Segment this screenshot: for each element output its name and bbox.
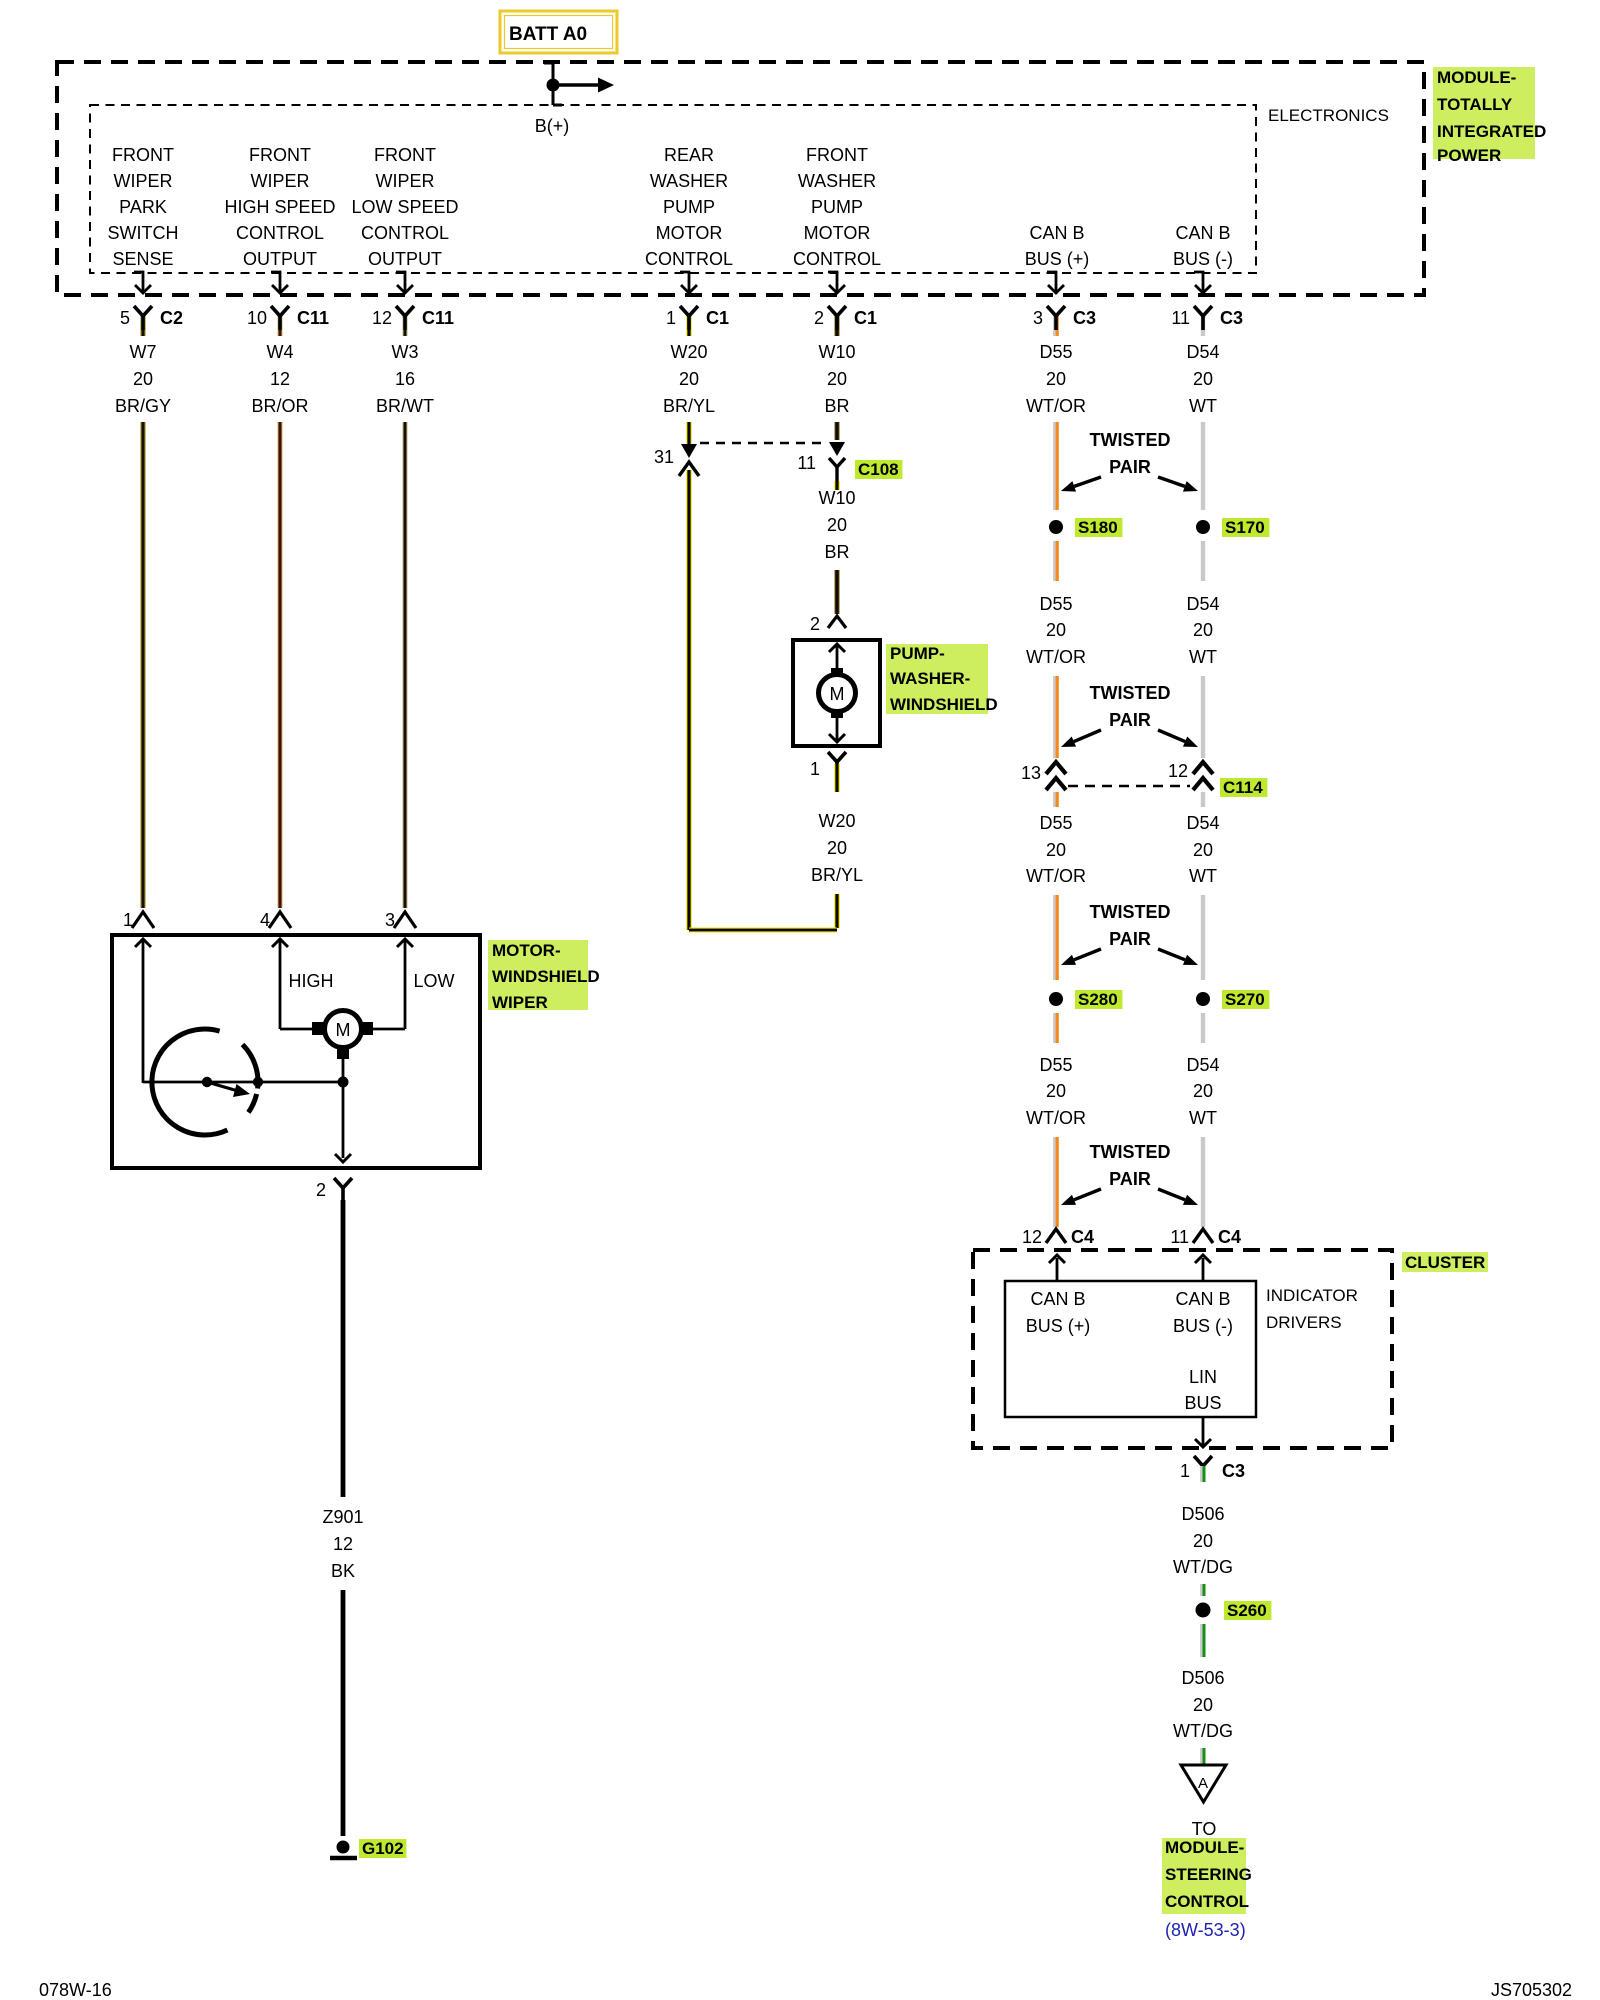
motor pin 4 chevron: [269, 912, 291, 928]
svg-text:BUS (+): BUS (+): [1026, 1316, 1091, 1336]
svg-text:W20: W20: [818, 811, 855, 831]
cluster dashed box: [973, 1250, 1392, 1448]
park switch contact dot: [202, 1077, 212, 1087]
connector C114 pin 12 (double chevron): [1193, 762, 1213, 774]
svg-text:DRIVERS: DRIVERS: [1266, 1313, 1342, 1332]
svg-text:11: 11: [1171, 308, 1190, 328]
svg-text:S180: S180: [1078, 518, 1118, 537]
svg-text:CLUSTER: CLUSTER: [1405, 1253, 1485, 1272]
pump pin 1 connector Y: [828, 752, 846, 762]
stub below C114 pin 13: [1053, 792, 1056, 807]
label CLUSTER: [1402, 1252, 1488, 1272]
svg-text:WIPER: WIPER: [492, 993, 548, 1012]
splice S260: [1196, 1603, 1211, 1618]
svg-text:WT/OR: WT/OR: [1026, 1108, 1086, 1128]
svg-text:BR: BR: [824, 542, 849, 562]
wire W10 BR upper segment: [835, 422, 840, 440]
cluster inner box indicator drivers: [1005, 1281, 1256, 1417]
svg-text:BUS: BUS: [1184, 1393, 1221, 1413]
park switch wiper arrow: [207, 1082, 238, 1091]
wire motor to junction: [342, 1059, 345, 1158]
svg-text:20: 20: [1046, 1081, 1066, 1101]
splice S170: [1196, 520, 1210, 534]
svg-text:CAN B: CAN B: [1029, 223, 1084, 243]
svg-text:LOW: LOW: [413, 971, 454, 991]
svg-text:TWISTED: TWISTED: [1090, 902, 1171, 922]
svg-text:BATT A0: BATT A0: [509, 24, 587, 45]
svg-text:PAIR: PAIR: [1109, 929, 1151, 949]
motor pin 1 chevron: [132, 912, 154, 928]
svg-text:STEERING: STEERING: [1165, 1865, 1252, 1884]
pin exit arrow front wiper high speed: [271, 272, 280, 293]
svg-text:FRONT: FRONT: [374, 145, 436, 165]
svg-text:TWISTED: TWISTED: [1090, 1142, 1171, 1162]
power feed label BATT A0: [500, 11, 617, 53]
svg-text:D55: D55: [1039, 594, 1072, 614]
wire D54 WT segment 5: [1201, 1013, 1205, 1043]
svg-text:G102: G102: [362, 1839, 404, 1858]
pin exit arrow CAN B bus +: [1047, 272, 1056, 293]
svg-text:TWISTED: TWISTED: [1090, 683, 1171, 703]
svg-text:Z901: Z901: [322, 1507, 363, 1527]
svg-text:D54: D54: [1186, 342, 1219, 362]
connector C1 pin 2: [835, 316, 840, 336]
wire D55 WT/OR segment 5: [1053, 1013, 1056, 1043]
motor-windshield wiper box: [112, 935, 480, 1168]
svg-text:C11: C11: [297, 308, 329, 328]
svg-text:20: 20: [1046, 620, 1066, 640]
svg-text:CONTROL: CONTROL: [1165, 1892, 1249, 1911]
svg-text:C1: C1: [854, 308, 877, 328]
svg-text:WT/OR: WT/OR: [1026, 647, 1086, 667]
svg-text:20: 20: [1193, 1081, 1213, 1101]
svg-text:2: 2: [814, 308, 824, 328]
svg-text:W3: W3: [392, 342, 419, 362]
svg-text:2: 2: [316, 1180, 326, 1200]
wire D55 WT/OR segment 6: [1053, 1137, 1056, 1227]
motor pin 3 chevron: [394, 912, 416, 928]
svg-text:WIPER: WIPER: [250, 171, 309, 191]
svg-text:TO: TO: [1192, 1819, 1217, 1839]
svg-text:WINDSHIELD: WINDSHIELD: [890, 695, 998, 714]
svg-text:20: 20: [827, 369, 847, 389]
motor M windshield wiper: [312, 1022, 323, 1035]
svg-text:C2: C2: [160, 308, 183, 328]
svg-text:D55: D55: [1039, 1055, 1072, 1075]
svg-text:1: 1: [666, 308, 676, 328]
svg-text:OUTPUT: OUTPUT: [243, 249, 317, 269]
svg-text:PUMP-: PUMP-: [890, 644, 945, 663]
connector C4 pin 11 chevron: [1193, 1229, 1213, 1243]
svg-text:C4: C4: [1218, 1227, 1241, 1247]
arrow cluster CAN B bus - (up): [1202, 1258, 1205, 1281]
arrow into wiper motor pin 3 (LOW): [404, 941, 407, 1029]
svg-text:12: 12: [333, 1534, 353, 1554]
wire D55 WT/OR segment 3: [1053, 676, 1056, 758]
svg-text:D54: D54: [1186, 1055, 1219, 1075]
pin exit arrow front wiper low speed: [396, 272, 405, 293]
wire W20 BR/YL long segment down: [686, 470, 691, 930]
wire D55 WT/OR segment 4: [1053, 895, 1056, 980]
svg-text:C108: C108: [858, 460, 899, 479]
svg-text:CAN B: CAN B: [1175, 1289, 1230, 1309]
svg-text:MODULE-: MODULE-: [1165, 1838, 1244, 1857]
svg-text:12: 12: [372, 308, 392, 328]
svg-text:WT/OR: WT/OR: [1026, 396, 1086, 416]
svg-text:PAIR: PAIR: [1109, 710, 1151, 730]
wire W10 BR to pump: [835, 570, 840, 614]
svg-text:C3: C3: [1222, 1461, 1245, 1481]
svg-text:LIN: LIN: [1189, 1367, 1217, 1387]
svg-text:20: 20: [1046, 840, 1066, 860]
svg-text:WASHER: WASHER: [798, 171, 876, 191]
svg-text:W10: W10: [818, 342, 855, 362]
pump-washer-windshield box: [793, 640, 880, 746]
wire D54 WT segment 4: [1201, 895, 1205, 980]
svg-text:BR/WT: BR/WT: [376, 396, 434, 416]
svg-text:PUMP: PUMP: [663, 197, 715, 217]
svg-text:BUS (-): BUS (-): [1173, 249, 1233, 269]
svg-text:20: 20: [1193, 620, 1213, 640]
svg-text:JS705302: JS705302: [1491, 1980, 1572, 2000]
svg-text:D54: D54: [1186, 813, 1219, 833]
svg-text:20: 20: [827, 515, 847, 535]
svg-text:078W-16: 078W-16: [39, 1980, 112, 2000]
svg-text:1: 1: [810, 759, 820, 779]
svg-text:(8W-53-3): (8W-53-3): [1165, 1920, 1246, 1940]
svg-text:12: 12: [270, 369, 290, 389]
svg-text:S260: S260: [1227, 1601, 1267, 1620]
wire D55 WT/OR segment 1: [1053, 422, 1056, 510]
motor M pump: [831, 668, 843, 679]
svg-text:W7: W7: [130, 342, 157, 362]
splice S270: [1196, 992, 1210, 1006]
svg-text:11: 11: [797, 453, 816, 473]
connector C3 pin 1: [1194, 1456, 1212, 1466]
pin exit arrow CAN B bus -: [1194, 272, 1203, 293]
motor pin 2 connector Y: [334, 1178, 352, 1188]
connector C11 pin 10: [277, 316, 282, 336]
svg-text:16: 16: [395, 369, 415, 389]
svg-text:M: M: [336, 1020, 351, 1040]
svg-text:5: 5: [120, 308, 130, 328]
svg-text:13: 13: [1021, 763, 1041, 783]
park switch cam circle: [152, 1029, 228, 1135]
svg-text:TOTALLY: TOTALLY: [1437, 95, 1513, 114]
svg-text:20: 20: [827, 838, 847, 858]
svg-text:1: 1: [1180, 1461, 1190, 1481]
arrow cluster CAN B bus + (up): [1056, 1258, 1059, 1281]
svg-text:SWITCH: SWITCH: [108, 223, 179, 243]
svg-text:CONTROL: CONTROL: [793, 249, 881, 269]
connector C108 pin 11 (arrow + Y): [829, 442, 845, 456]
connector C4 pin 12 chevron: [1046, 1229, 1066, 1243]
svg-text:S270: S270: [1225, 990, 1265, 1009]
junction dot on battery feed: [547, 79, 560, 92]
svg-text:BR/YL: BR/YL: [811, 865, 863, 885]
svg-text:INDICATOR: INDICATOR: [1266, 1286, 1358, 1305]
svg-text:WT/DG: WT/DG: [1173, 1557, 1233, 1577]
svg-text:D506: D506: [1181, 1504, 1224, 1524]
svg-text:D54: D54: [1186, 594, 1219, 614]
wire Z901 BK upper: [341, 1200, 346, 1497]
connector C3 pin 3: [1053, 316, 1056, 336]
svg-text:D506: D506: [1181, 1668, 1224, 1688]
svg-text:A: A: [1198, 1775, 1208, 1792]
pin exit arrow rear washer pump: [680, 272, 689, 293]
svg-text:2: 2: [810, 614, 820, 634]
svg-text:WIPER: WIPER: [113, 171, 172, 191]
stub below C108: [834, 481, 839, 490]
svg-text:20: 20: [1046, 369, 1066, 389]
svg-text:W4: W4: [267, 342, 294, 362]
arrow out of wiper motor box (down): [335, 1154, 351, 1162]
svg-text:20: 20: [1193, 1695, 1213, 1715]
svg-text:BUS (+): BUS (+): [1025, 249, 1090, 269]
arrow into pump (up): [836, 646, 839, 672]
wire D54 WT segment 2: [1201, 541, 1205, 581]
svg-text:20: 20: [679, 369, 699, 389]
svg-text:MOTOR-: MOTOR-: [492, 941, 561, 960]
svg-text:PAIR: PAIR: [1109, 457, 1151, 477]
svg-text:D55: D55: [1039, 342, 1072, 362]
svg-text:OUTPUT: OUTPUT: [368, 249, 442, 269]
svg-text:SENSE: SENSE: [112, 249, 173, 269]
svg-text:POWER: POWER: [1437, 146, 1501, 165]
dashed leader from 31 to C108: [700, 442, 822, 444]
svg-text:BK: BK: [331, 1561, 355, 1581]
svg-text:CAN B: CAN B: [1175, 223, 1230, 243]
svg-text:WIPER: WIPER: [375, 171, 434, 191]
in-line connector 31 (arrow + chevron): [681, 444, 697, 458]
wire battery feed B(+): [544, 62, 553, 65]
svg-text:W10: W10: [818, 488, 855, 508]
svg-text:LOW SPEED: LOW SPEED: [351, 197, 458, 217]
svg-text:12: 12: [1168, 761, 1188, 781]
svg-text:PARK: PARK: [119, 197, 167, 217]
svg-text:C1: C1: [706, 308, 729, 328]
wire W3 BR/WT: [402, 422, 407, 908]
svg-text:3: 3: [1033, 308, 1043, 328]
svg-text:WT/DG: WT/DG: [1173, 1721, 1233, 1741]
svg-text:INTEGRATED: INTEGRATED: [1437, 122, 1546, 141]
wire LIN bus out of cluster: [1202, 1417, 1205, 1446]
svg-text:C114: C114: [1223, 778, 1263, 797]
wire W4 BR/OR: [277, 422, 282, 908]
svg-text:ELECTRONICS: ELECTRONICS: [1268, 106, 1389, 125]
svg-text:WASHER: WASHER: [650, 171, 728, 191]
svg-text:HIGH SPEED: HIGH SPEED: [224, 197, 335, 217]
splice S280: [1049, 992, 1063, 1006]
svg-text:BR/YL: BR/YL: [663, 396, 715, 416]
svg-text:BUS (-): BUS (-): [1173, 1316, 1233, 1336]
svg-text:WT: WT: [1189, 1108, 1217, 1128]
label MOTOR-WINDSHIELD WIPER: [488, 940, 588, 1010]
wire D55 WT/OR segment 2: [1053, 541, 1056, 581]
svg-text:D55: D55: [1039, 813, 1072, 833]
svg-text:REAR: REAR: [664, 145, 714, 165]
svg-text:HIGH: HIGH: [289, 971, 334, 991]
svg-text:C4: C4: [1071, 1227, 1094, 1247]
svg-text:20: 20: [1193, 1531, 1213, 1551]
svg-text:11: 11: [1170, 1227, 1189, 1247]
splice S180: [1049, 520, 1063, 534]
svg-text:MOTOR: MOTOR: [656, 223, 723, 243]
svg-text:20: 20: [1193, 840, 1213, 860]
svg-text:S280: S280: [1078, 990, 1118, 1009]
svg-text:CONTROL: CONTROL: [645, 249, 733, 269]
svg-text:31: 31: [654, 447, 674, 467]
svg-text:CONTROL: CONTROL: [236, 223, 324, 243]
svg-text:B(+): B(+): [535, 116, 570, 136]
svg-text:10: 10: [247, 308, 267, 328]
svg-text:PAIR: PAIR: [1109, 1169, 1151, 1189]
svg-text:20: 20: [133, 369, 153, 389]
stub above S260: [1200, 1584, 1203, 1596]
wire W7 BR/GY: [140, 422, 145, 908]
off-page connector A triangle: [1181, 1765, 1226, 1802]
svg-text:3: 3: [385, 910, 395, 930]
module - totally integrated power (outer dashed box): [57, 62, 1424, 295]
svg-text:FRONT: FRONT: [112, 145, 174, 165]
wire D54 WT segment 1: [1201, 422, 1205, 510]
svg-text:MODULE-: MODULE-: [1437, 68, 1516, 87]
arrow into wiper motor pin 4 (HIGH): [279, 941, 282, 1029]
svg-text:WT: WT: [1189, 396, 1217, 416]
svg-text:BR/OR: BR/OR: [251, 396, 308, 416]
svg-text:C3: C3: [1073, 308, 1096, 328]
svg-text:W20: W20: [670, 342, 707, 362]
pin exit arrow front washer pump: [828, 272, 837, 293]
svg-text:S170: S170: [1225, 518, 1265, 537]
connector C1 pin 1: [686, 316, 691, 336]
pin exit arrow front wiper park switch sense: [134, 272, 143, 293]
svg-text:WINDSHIELD: WINDSHIELD: [492, 967, 600, 986]
label PUMP-WASHER-WINDSHIELD: [886, 644, 988, 714]
ground G102: [337, 1841, 350, 1854]
svg-text:WT: WT: [1189, 647, 1217, 667]
junction dot in wiper motor box: [338, 1077, 349, 1088]
svg-text:C3: C3: [1220, 308, 1243, 328]
arrow out of pump (down): [836, 714, 839, 740]
wire Z901 BK lower: [341, 1590, 346, 1836]
electronics inner dashed box: [90, 105, 1256, 273]
svg-text:FRONT: FRONT: [806, 145, 868, 165]
label MODULE-TOTALLY INTEGRATED POWER: [1433, 67, 1535, 159]
park switch junction dot on cam: [253, 1077, 263, 1087]
wire D506 WT/DG: [1200, 1624, 1203, 1657]
label MODULE-STEERING CONTROL: [1162, 1838, 1246, 1914]
svg-text:FRONT: FRONT: [249, 145, 311, 165]
svg-text:20: 20: [1193, 369, 1213, 389]
svg-text:WASHER-: WASHER-: [890, 669, 970, 688]
pump pin 2 chevron: [828, 616, 846, 628]
svg-text:4: 4: [260, 910, 270, 930]
wire W20 BR/YL bottom loop: [834, 894, 839, 928]
dashed leader C114: [1068, 785, 1190, 788]
connector C2 pin 5: [140, 316, 145, 336]
svg-text:MOTOR: MOTOR: [804, 223, 871, 243]
wire D54 WT segment 3: [1201, 676, 1205, 758]
svg-text:1: 1: [123, 910, 133, 930]
svg-text:CAN B: CAN B: [1030, 1289, 1085, 1309]
wire W20 BR/YL upper segment: [686, 422, 691, 446]
connector C114 pin 13 (double chevron): [1046, 762, 1066, 774]
park switch wire from pin 1: [143, 1081, 343, 1084]
svg-text:12: 12: [1022, 1227, 1042, 1247]
svg-text:TWISTED: TWISTED: [1090, 430, 1171, 450]
svg-text:CONTROL: CONTROL: [361, 223, 449, 243]
wire D54 WT segment 6: [1201, 1137, 1205, 1227]
svg-text:WT/OR: WT/OR: [1026, 866, 1086, 886]
connector C3 pin 11: [1201, 316, 1205, 336]
stub below C114 pin 12: [1201, 792, 1205, 807]
stub above off-page triangle: [1200, 1748, 1203, 1764]
arrow battery feed to right: [553, 83, 600, 86]
arrow into wiper motor pin 1: [142, 941, 145, 1083]
svg-text:M: M: [830, 684, 845, 704]
svg-text:C11: C11: [422, 308, 454, 328]
svg-text:WT: WT: [1189, 866, 1217, 886]
connector C11 pin 12: [402, 316, 407, 336]
svg-text:BR/GY: BR/GY: [115, 396, 171, 416]
svg-text:BR: BR: [824, 396, 849, 416]
svg-text:PUMP: PUMP: [811, 197, 863, 217]
